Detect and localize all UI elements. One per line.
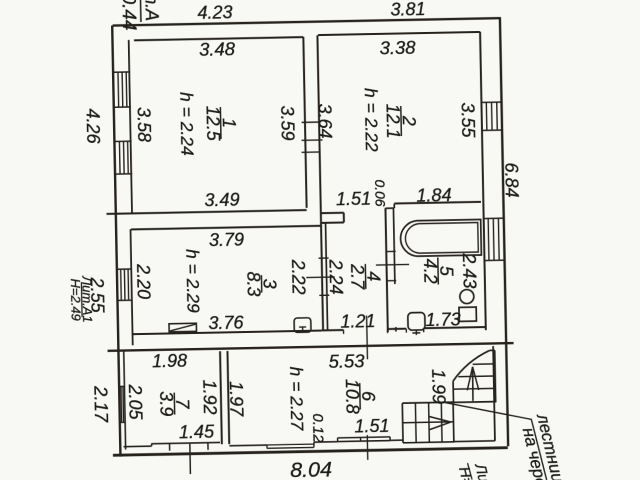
svg-text:2.7: 2.7 xyxy=(347,263,368,290)
room 6 bottom inner line b xyxy=(314,441,338,443)
window W2 room1 line c xyxy=(127,141,130,173)
svg-text:3.48: 3.48 xyxy=(199,38,236,60)
bath door tick left xyxy=(405,329,407,333)
window W5 room3 line c xyxy=(127,269,130,300)
corridor left wall tick 2 (dim line) xyxy=(306,276,334,279)
tick 3 in wall room1|room2 xyxy=(302,151,319,153)
stairs upper flight xyxy=(452,381,454,402)
corridor top stub lower line xyxy=(321,222,344,224)
svg-text:3.49: 3.49 xyxy=(204,190,239,211)
room 3 left wall inner line xyxy=(131,229,133,345)
svg-text:5.53: 5.53 xyxy=(328,350,365,372)
window bump left side xyxy=(337,438,339,442)
room 1 number/area label xyxy=(219,107,222,139)
corridor left wall line b xyxy=(326,223,328,331)
svg-text:Н=2.49: Н=2.49 xyxy=(68,278,84,321)
window bump top line xyxy=(338,437,390,438)
threshold A upper line xyxy=(267,443,314,446)
room 3 top wall inner line xyxy=(131,226,321,230)
room 7 bottom inner line xyxy=(152,442,220,443)
room 1 left wall inner line xyxy=(129,40,132,213)
svg-text:h = 2.27: h = 2.27 xyxy=(286,366,307,431)
svg-text:0.06: 0.06 xyxy=(372,179,389,207)
svg-text:3.9: 3.9 xyxy=(156,391,176,416)
band upper line (corridor bottom left) xyxy=(321,329,343,331)
sink symbol room 3 xyxy=(294,318,311,333)
svg-text:8.04: 8.04 xyxy=(290,457,332,480)
room 6 bottom step at threshold A xyxy=(313,442,315,445)
room 2 bottom wall inner line xyxy=(394,202,481,204)
room 2 number/area label xyxy=(400,106,403,136)
window W3 room2 line b xyxy=(491,102,494,130)
svg-text:1.84: 1.84 xyxy=(416,185,451,206)
dim tick 1.51 bottom xyxy=(366,435,368,460)
window W3 room2 line c xyxy=(496,102,499,130)
svg-text:4.2: 4.2 xyxy=(420,258,440,283)
building letter label Лит.А1 / Н=2.49 xyxy=(80,282,83,317)
wall room7|room6 right line xyxy=(227,351,229,444)
room 7 bottom step xyxy=(151,443,153,446)
svg-text:3.81: 3.81 xyxy=(390,0,425,20)
outer wall left xyxy=(112,26,120,457)
window W6 room7 cap top xyxy=(119,385,125,387)
svg-text:10.8: 10.8 xyxy=(342,379,363,414)
corridor|bath wall top cap xyxy=(385,207,393,209)
window W2 room1 line b xyxy=(123,141,126,173)
threshold A cap left xyxy=(266,445,268,448)
window W6 room7 line b xyxy=(122,386,125,422)
window bump right side xyxy=(389,437,391,441)
window W1 room1 line b xyxy=(121,72,124,107)
partial label underline bottom right xyxy=(468,463,473,480)
svg-text:2.05: 2.05 xyxy=(125,383,146,420)
svg-text:8.3: 8.3 xyxy=(243,271,263,296)
svg-text:3.38: 3.38 xyxy=(379,37,416,59)
svg-text:0.44: 0.44 xyxy=(117,0,139,31)
room 1 top wall inner line xyxy=(134,37,303,40)
corridor left wall tick 1 xyxy=(318,257,328,259)
corridor|bath wall right line lower xyxy=(395,327,397,331)
room 7 left wall inner line xyxy=(124,351,126,450)
svg-text:0.12: 0.12 xyxy=(309,413,327,443)
dim tick 5.53 top xyxy=(366,316,369,360)
svg-text:2.20: 2.20 xyxy=(133,263,154,299)
room 6 bottom inner line a xyxy=(229,444,267,447)
corridor left wall tick 3 xyxy=(319,294,329,296)
corridor|bath wall tick 1 xyxy=(386,250,396,252)
svg-text:12.1: 12.1 xyxy=(383,103,404,138)
svg-text:2.17: 2.17 xyxy=(91,385,113,423)
stair area right wall inner line xyxy=(493,346,495,441)
svg-text:3.59: 3.59 xyxy=(277,105,298,140)
svg-text:3.64: 3.64 xyxy=(315,103,336,138)
corridor top stub right cap xyxy=(343,213,345,223)
corridor|bath wall tick 3 xyxy=(386,280,396,282)
washbasin xyxy=(408,312,425,330)
svg-text:2.24: 2.24 xyxy=(326,258,347,294)
svg-text:3.79: 3.79 xyxy=(209,230,244,251)
window W4 bath line a xyxy=(487,219,490,261)
room 3 number/area label xyxy=(260,275,262,292)
window W4 bath line c xyxy=(497,218,500,260)
room 7 number/area label xyxy=(173,393,175,415)
window W2 room1 cap top xyxy=(115,140,131,142)
corridor left wall line a xyxy=(321,213,323,331)
room 1 bottom wall inner line xyxy=(107,210,307,214)
svg-text:1.92: 1.92 xyxy=(199,379,220,414)
window W4 bath cap bottom xyxy=(484,259,504,261)
svg-text:2.43: 2.43 xyxy=(459,252,480,288)
threshold A lower line xyxy=(267,446,314,449)
window bump divider xyxy=(360,438,362,442)
stairs lower flight arrow xyxy=(429,416,451,430)
outer wall top xyxy=(113,18,501,25)
room 4 number/area label xyxy=(364,264,366,289)
svg-text:1.51: 1.51 xyxy=(354,416,389,437)
svg-text:Лит.А: Лит.А xyxy=(141,0,162,21)
svg-text:h = 2.24: h = 2.24 xyxy=(176,92,197,156)
svg-text:1.99: 1.99 xyxy=(428,369,449,404)
corridor|bath wall tick 2 (dim line) xyxy=(376,263,409,266)
stair area bottom inner line xyxy=(453,440,495,443)
svg-text:1.98: 1.98 xyxy=(152,351,187,372)
svg-text:1.51: 1.51 xyxy=(336,189,371,210)
room 2 top wall inner line xyxy=(318,32,480,35)
window W5 room3 line b xyxy=(123,269,126,300)
corridor|bath wall left line xyxy=(385,208,387,332)
svg-text:6.84: 6.84 xyxy=(501,162,522,197)
stove symbol room 3 xyxy=(169,323,196,332)
room 6 bottom inner line c xyxy=(338,441,390,442)
window W1 room1 line c xyxy=(125,72,128,107)
window W2 room1 cap bottom xyxy=(116,173,132,175)
window W5 room3 line a xyxy=(120,269,123,300)
wall room7|room6 left line xyxy=(220,351,222,444)
room 7 bottom inner stub xyxy=(124,445,152,448)
tick 1 in wall room1|room2 xyxy=(302,121,319,123)
svg-text:1.97: 1.97 xyxy=(226,381,247,417)
toilet xyxy=(459,307,476,321)
window W3 room2 cap top xyxy=(481,101,502,103)
band upper line (room3 bottom) xyxy=(132,331,321,335)
svg-text:1.21: 1.21 xyxy=(340,311,375,332)
window W1 room1 line a xyxy=(117,72,120,107)
window W3 room2 cap bottom xyxy=(482,129,503,131)
entrance leader line xyxy=(189,444,192,474)
room 2 / bath right wall inner line xyxy=(480,32,486,330)
svg-text:3.55: 3.55 xyxy=(458,102,479,138)
svg-text:4.26: 4.26 xyxy=(83,108,104,144)
window W5 room3 cap bottom xyxy=(118,299,133,301)
window W1 room1 cap bottom xyxy=(114,106,130,108)
outer wall right xyxy=(500,17,508,446)
window W4 bath line b xyxy=(492,218,495,260)
window W6 room7 line a xyxy=(120,387,123,423)
window W6 room7 cap bottom xyxy=(120,421,126,423)
leader line to attic stairs label xyxy=(444,400,547,480)
svg-text:4.23: 4.23 xyxy=(197,2,232,23)
svg-text:3.76: 3.76 xyxy=(208,313,244,334)
window W4 bath cap top xyxy=(484,217,504,219)
bathtub xyxy=(400,219,481,256)
outer wall bottom xyxy=(113,448,508,456)
opening 1.21 tick left xyxy=(342,330,344,334)
band upper line (bath bottom right) xyxy=(424,327,486,328)
wall room1|room2 left line xyxy=(303,37,306,208)
tick 2 in wall room1|room2 (dim line) xyxy=(302,139,323,141)
corridor top stub upper line xyxy=(321,212,344,214)
svg-text:3.58: 3.58 xyxy=(134,107,155,142)
svg-text:1.73: 1.73 xyxy=(425,309,460,330)
opening 1.21 tick right xyxy=(386,329,388,333)
svg-text:12.5: 12.5 xyxy=(202,105,223,141)
dim tick 0.44 top xyxy=(139,0,141,22)
stairs lower flight xyxy=(402,401,453,404)
window W5 room3 cap top xyxy=(117,268,132,270)
svg-text:2.22: 2.22 xyxy=(288,258,309,294)
room 6 number/area label xyxy=(359,383,362,409)
room 5 number/area label xyxy=(437,258,440,285)
svg-text:1.45: 1.45 xyxy=(179,422,215,443)
window W1 room1 cap top xyxy=(114,71,130,73)
wall room1|room2 right line xyxy=(317,35,320,213)
window W2 room1 line a xyxy=(118,141,121,173)
threshold A cap right xyxy=(313,444,315,447)
corridor|bath wall right line upper xyxy=(393,208,394,284)
svg-text:h = 2.22: h = 2.22 xyxy=(361,88,382,152)
bath wall step vertical xyxy=(393,204,395,208)
window W3 room2 line a xyxy=(485,102,488,130)
svg-text:h = 2.29: h = 2.29 xyxy=(182,249,203,313)
band lower line (rooms 6/7 top) xyxy=(108,343,514,351)
band upper line (between doors) xyxy=(387,328,406,330)
stairs upper flight arrow xyxy=(471,367,474,401)
door 1.45 jamb left xyxy=(169,443,171,450)
room 6 bottom inner line d xyxy=(390,439,403,441)
bath door tick right xyxy=(423,328,425,332)
door 1.45 jamb right xyxy=(207,443,209,450)
